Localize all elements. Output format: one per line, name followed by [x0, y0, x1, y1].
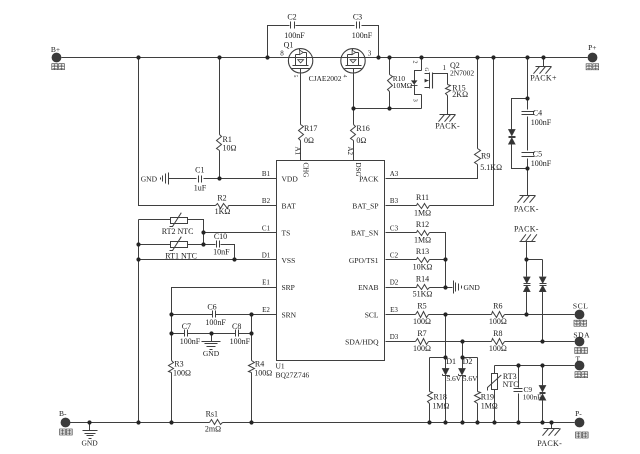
svg-text:8: 8 [280, 49, 284, 57]
svg-text:Rs1: Rs1 [206, 410, 218, 419]
svg-text:B2: B2 [262, 197, 271, 205]
wire RT3 column [494, 366, 496, 423]
svg-text:3: 3 [412, 99, 418, 102]
svg-text:C1: C1 [195, 166, 204, 175]
wire PACK- bottom stub [551, 423, 553, 429]
svg-text:C4: C4 [533, 108, 542, 117]
wire Q1a gate to R17 to A1 [300, 74, 302, 161]
pin label B3 [390, 197, 399, 205]
thermistor RT2 NTC [162, 213, 194, 236]
capacitor C2 100nF [284, 13, 305, 41]
svg-text:R16: R16 [356, 124, 369, 133]
wire C1 to IC VDD pin [204, 178, 277, 180]
wire D1 to R18 bracket [430, 358, 446, 423]
svg-text:1KΩ: 1KΩ [215, 207, 231, 216]
pin name BAT_SP [352, 202, 378, 211]
wire SRN row with C6 [172, 314, 277, 316]
net port PACK+ [530, 67, 557, 83]
svg-text:SDA: SDA [573, 331, 590, 340]
pad P- [575, 409, 589, 438]
ground GND at sense filter [202, 342, 221, 358]
svg-text:C3: C3 [390, 224, 399, 232]
wire IC BAT_SN through R12 [386, 233, 446, 288]
ground GND at ENAB [454, 281, 481, 294]
pin label D3 [390, 333, 399, 341]
svg-text:10KΩ: 10KΩ [413, 263, 433, 272]
pin label B1 [262, 170, 271, 178]
resistor R3 100Ω [169, 360, 192, 378]
pad SCL [573, 302, 589, 327]
svg-text:C5: C5 [533, 150, 542, 159]
svg-text:R14: R14 [416, 274, 429, 283]
svg-text:R13: R13 [416, 247, 429, 256]
ground GND near B- [81, 431, 98, 448]
wire DSG gate node horizontal [354, 108, 422, 110]
wire RT2 right to TS column [188, 220, 204, 245]
wire D1 column [445, 315, 447, 423]
pin name DSG [354, 163, 362, 177]
resistor R1 10Ω [217, 135, 237, 153]
svg-text:51KΩ: 51KΩ [413, 290, 433, 299]
svg-text:100nF: 100nF [523, 394, 541, 402]
svg-text:Q1: Q1 [284, 41, 294, 50]
junction dots B+ rail [136, 55, 545, 59]
svg-text:R4: R4 [255, 360, 264, 369]
wire SDA row [386, 341, 575, 343]
svg-text:R7: R7 [417, 329, 426, 338]
svg-text:100nF: 100nF [284, 31, 305, 40]
pin name CHG [302, 163, 310, 178]
svg-text:PACK+: PACK+ [530, 74, 557, 83]
svg-text:C2: C2 [287, 13, 296, 22]
svg-text:GND: GND [81, 438, 98, 447]
svg-text:100nF: 100nF [205, 318, 226, 327]
svg-text:3: 3 [368, 49, 372, 57]
wire C7 C8 row [172, 333, 252, 335]
svg-text:C6: C6 [207, 303, 216, 312]
svg-text:D1: D1 [262, 251, 271, 259]
svg-text:SRN: SRN [282, 310, 297, 319]
svg-text:PACK-: PACK- [514, 224, 539, 233]
wire R10 column [389, 58, 391, 109]
svg-text:GPO/TS1: GPO/TS1 [349, 256, 379, 265]
svg-text:0Ω: 0Ω [304, 136, 314, 145]
ESD diode pair SDA [539, 277, 546, 292]
wire B+ to R2 branch (left column upper) [139, 58, 216, 206]
wire R1 column [219, 58, 221, 179]
capacitor C10 10nF [213, 232, 230, 257]
wire B+ rail [62, 57, 588, 59]
svg-text:5.6V: 5.6V [463, 374, 478, 383]
wire Q1b gate to R16 to A2 [353, 74, 355, 161]
svg-text:BQ27Z746: BQ27Z746 [276, 371, 310, 380]
svg-text:R9: R9 [481, 152, 490, 161]
svg-text:PACK-: PACK- [514, 205, 539, 214]
svg-text:100nF: 100nF [531, 118, 552, 127]
svg-text:C10: C10 [214, 232, 227, 241]
svg-text:T: T [576, 355, 581, 364]
wire IC GPO/TS1 through R13 [386, 259, 446, 261]
ground GND at C1 [141, 173, 169, 185]
svg-text:10Ω: 10Ω [223, 143, 237, 152]
svg-text:R11: R11 [416, 193, 429, 202]
svg-text:B3: B3 [390, 197, 399, 205]
svg-text:B1: B1 [262, 170, 271, 178]
resistor R9 5.1KΩ [475, 149, 503, 172]
wire R4 column [251, 315, 253, 423]
pin name ENAB [358, 283, 378, 292]
svg-text:GND: GND [141, 174, 158, 183]
resistor R16 0Ω [351, 124, 370, 145]
wire R9 column to IC PACK pin [386, 58, 478, 179]
svg-text:2KΩ: 2KΩ [452, 90, 468, 99]
wire PACK+ stub [543, 58, 545, 67]
svg-text:CJAE2002: CJAE2002 [309, 74, 342, 83]
pin name VDD [282, 174, 299, 183]
wire T ESD diode column [542, 366, 544, 423]
capacitor C9 100nF [514, 385, 542, 402]
net port PACK- bottom right [537, 429, 562, 449]
pin label E1 [262, 279, 270, 287]
wire SRP net [172, 288, 277, 423]
wire GND stub filter [211, 334, 213, 342]
pin name BAT_SN [351, 229, 379, 238]
svg-text:2: 2 [412, 61, 418, 64]
svg-text:DSG: DSG [354, 163, 362, 177]
svg-text:D1: D1 [446, 357, 456, 366]
transistor Q1 dual MOSFET CJAE2002 [280, 41, 372, 83]
svg-text:100Ω: 100Ω [489, 344, 507, 353]
pin name SCL [365, 310, 379, 319]
resistor R17 0Ω [299, 124, 318, 145]
pin name SRP [282, 283, 295, 292]
capacitor C6 100nF [205, 303, 226, 327]
pin label C3 [390, 224, 399, 232]
pin label D2 [390, 279, 399, 287]
svg-text:NTC: NTC [503, 380, 519, 389]
svg-text:R5: R5 [417, 302, 426, 311]
wire C10 to VSS row [221, 245, 235, 260]
svg-text:GND: GND [203, 349, 220, 358]
pad SDA [573, 331, 590, 354]
pin name GPO/TS1 [349, 256, 379, 265]
svg-text:100Ω: 100Ω [413, 344, 431, 353]
pin label C2 [390, 251, 399, 259]
pad P+ [586, 43, 599, 70]
net port PACK- below C5 [514, 196, 539, 214]
svg-text:2mΩ: 2mΩ [205, 425, 221, 434]
resistor R10 10MΩ [388, 74, 413, 92]
wire left column lower (RT network to B- rail) [139, 220, 171, 423]
svg-text:100Ω: 100Ω [254, 369, 272, 378]
capacitor C4 100nF [522, 108, 552, 126]
svg-text:A3: A3 [390, 170, 399, 178]
svg-text:D2: D2 [390, 279, 399, 287]
net port PACK- above ESD diodes [514, 224, 539, 241]
resistor R18 1MΩ [428, 392, 450, 411]
svg-text:R3: R3 [174, 360, 183, 369]
svg-text:100nF: 100nF [531, 159, 552, 168]
wire IC ENAB through R14 to GND [386, 287, 453, 289]
svg-text:10MΩ: 10MΩ [393, 81, 413, 90]
svg-text:R18: R18 [434, 393, 447, 402]
resistor R12 1MΩ [414, 220, 431, 244]
svg-text:5.1KΩ: 5.1KΩ [480, 163, 502, 172]
pin name PACK [359, 174, 379, 183]
svg-text:C1: C1 [262, 224, 271, 232]
wire Q2 gate to R15 [433, 74, 448, 115]
svg-text:R17: R17 [304, 124, 317, 133]
transistor Q2 2N7002 [411, 61, 475, 102]
pin name BAT [282, 202, 297, 211]
svg-text:P-: P- [575, 409, 582, 418]
svg-text:C7: C7 [182, 322, 191, 331]
ESD diode pair at C4 C5 [508, 129, 515, 144]
junction dots B- rail [87, 420, 553, 424]
svg-text:A1: A1 [293, 147, 301, 156]
capacitor C8 100nF [230, 322, 251, 346]
pin name TS [282, 229, 291, 238]
resistor R2 1KΩ [215, 194, 231, 217]
svg-text:SRP: SRP [282, 283, 295, 292]
svg-text:1MΩ: 1MΩ [414, 235, 431, 244]
svg-text:R19: R19 [481, 393, 494, 402]
svg-text:A2: A2 [346, 147, 354, 156]
resistor R7 100Ω [413, 329, 431, 353]
wire SCL row [386, 314, 575, 316]
svg-text:5: 5 [292, 75, 298, 78]
svg-text:1: 1 [443, 64, 447, 72]
zener diode D1 5.6V [442, 357, 462, 383]
resistor R4 100Ω [249, 360, 273, 378]
svg-text:100nF: 100nF [352, 31, 373, 40]
IC U1 BQ27Z746 [276, 161, 385, 380]
wire D2 column [462, 342, 464, 423]
wire C4 C5 column [527, 58, 529, 196]
svg-text:ENAB: ENAB [358, 283, 378, 292]
pin name VSS [282, 256, 296, 265]
svg-text:PACK-: PACK- [435, 121, 460, 130]
pin label B2 [262, 197, 271, 205]
svg-text:1MΩ: 1MΩ [432, 402, 449, 411]
svg-text:B+: B+ [51, 45, 60, 54]
svg-text:E1: E1 [262, 279, 270, 287]
net label A1 [293, 147, 301, 156]
svg-text:PACK-: PACK- [537, 439, 562, 448]
wire top capacitor line C2 C3 [268, 26, 379, 58]
pad T [575, 355, 588, 378]
svg-text:VSS: VSS [282, 256, 296, 265]
svg-text:1uF: 1uF [194, 184, 207, 193]
zener diode D2 5.6V [459, 357, 479, 383]
pad B+ [51, 45, 65, 70]
svg-text:D3: D3 [390, 333, 399, 341]
capacitor C3 100nF [352, 13, 373, 41]
thermistor RT1 NTC [165, 237, 197, 261]
wire Q2 drain and source [421, 58, 423, 109]
pin name SDA/HDQ [345, 337, 379, 346]
resistor R11 1MΩ [414, 193, 431, 217]
resistor R13 10KΩ [413, 247, 433, 271]
svg-text:C9: C9 [524, 385, 533, 394]
svg-text:4: 4 [342, 75, 348, 78]
resistor R8 100Ω [489, 329, 507, 353]
resistor R14 51KΩ [413, 274, 433, 298]
svg-text:BAT_SN: BAT_SN [351, 229, 379, 238]
svg-text:BAT: BAT [282, 202, 297, 211]
pin name SRN [282, 310, 297, 319]
svg-text:C2: C2 [390, 251, 399, 259]
svg-text:U1: U1 [276, 362, 285, 371]
ESD diode pair T [539, 385, 546, 400]
svg-text:RT2 NTC: RT2 NTC [162, 227, 194, 236]
resistor R19 1MΩ [475, 392, 498, 411]
pin label C1 [262, 224, 271, 232]
svg-text:R2: R2 [217, 194, 226, 203]
svg-text:BAT_SP: BAT_SP [352, 202, 378, 211]
svg-text:1MΩ: 1MΩ [414, 208, 431, 217]
capacitor C1 1uF [194, 166, 207, 193]
resistor Rs1 2mΩ shunt [205, 410, 223, 434]
svg-text:G: G [423, 68, 429, 72]
wire GND to C1 [169, 178, 197, 180]
wire C4 C5 ESD branch [512, 99, 528, 169]
svg-text:E3: E3 [390, 306, 398, 314]
wire PACK- to SCL SDA ESD diodes [527, 242, 543, 342]
svg-text:100nF: 100nF [180, 337, 201, 346]
resistor R6 100Ω [489, 302, 507, 326]
capacitor C5 100nF [522, 150, 552, 168]
svg-text:SDA/HDQ: SDA/HDQ [345, 337, 379, 346]
svg-text:R12: R12 [416, 220, 429, 229]
wire B- GND stub [89, 423, 91, 431]
wire B- rail [70, 422, 575, 424]
wire R2 to IC BAT pin [229, 205, 277, 207]
pin label A3 [390, 170, 399, 178]
pin label E3 [390, 306, 398, 314]
wire D2 to R19 bracket [463, 358, 478, 423]
svg-text:E2: E2 [262, 306, 270, 314]
pin label D1 [262, 251, 271, 259]
pin label E2 [262, 306, 270, 314]
svg-text:100Ω: 100Ω [489, 317, 507, 326]
pad B- [59, 409, 72, 435]
svg-text:100nF: 100nF [230, 337, 251, 346]
svg-text:C8: C8 [232, 322, 241, 331]
svg-text:100Ω: 100Ω [413, 317, 431, 326]
svg-text:R6: R6 [493, 302, 502, 311]
wire VSS row [139, 259, 277, 261]
svg-text:TS: TS [282, 229, 291, 238]
net port PACK- below R15 [435, 115, 460, 131]
junction dots interior [136, 96, 544, 367]
svg-text:SCL: SCL [365, 310, 379, 319]
svg-text:RT1 NTC: RT1 NTC [165, 252, 197, 261]
net label A2 [346, 147, 354, 156]
svg-text:CHG: CHG [302, 163, 310, 178]
svg-text:B-: B- [59, 409, 67, 418]
wire T row [495, 365, 575, 367]
svg-text:0Ω: 0Ω [356, 136, 366, 145]
resistor R15 2KΩ [446, 84, 469, 99]
svg-text:SCL: SCL [573, 302, 589, 311]
wire IC BAT_SP through R11 to B+ rail [386, 58, 494, 206]
svg-text:2N7002: 2N7002 [450, 68, 474, 77]
svg-text:GND: GND [464, 283, 481, 292]
ESD diode pair SCL [523, 277, 530, 292]
svg-text:R8: R8 [493, 329, 502, 338]
wire C9 column [518, 366, 520, 423]
svg-text:C3: C3 [353, 13, 362, 22]
resistor R5 100Ω [413, 302, 431, 326]
wire TS row [204, 232, 277, 234]
wire RT1 row [139, 244, 216, 246]
svg-text:1MΩ: 1MΩ [481, 402, 498, 411]
thermistor RT3 NTC [488, 372, 519, 390]
svg-text:100Ω: 100Ω [173, 369, 191, 378]
svg-text:10nF: 10nF [213, 248, 230, 257]
svg-text:P+: P+ [588, 43, 596, 52]
svg-text:VDD: VDD [282, 174, 299, 183]
capacitor C7 100nF [180, 322, 201, 346]
